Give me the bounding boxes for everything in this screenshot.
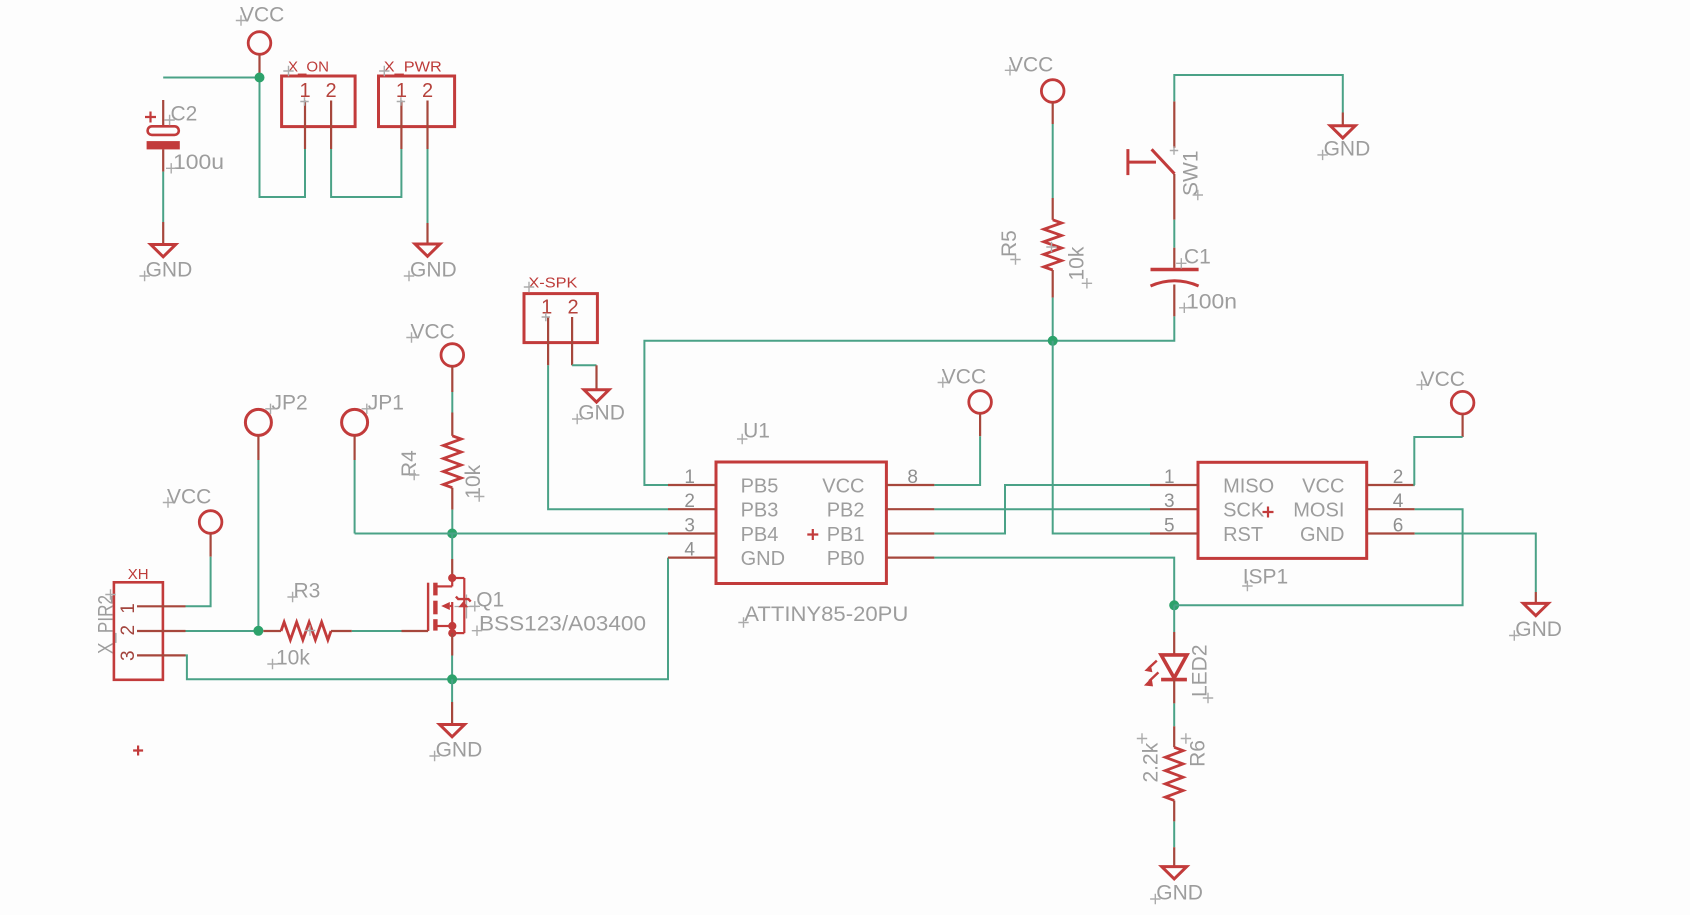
wire net VCC: C2 top / VCC flag / X_ON pin1 xyxy=(163,78,305,198)
wire net GND: R6 to ground xyxy=(1173,821,1175,866)
svg-text:3: 3 xyxy=(118,650,139,661)
svg-text:R5: R5 xyxy=(998,230,1021,257)
svg-text:GND: GND xyxy=(1156,882,1203,905)
wire net PB3: X-SPK pin1 down/over to U1 pin2 xyxy=(548,365,668,509)
ic ISP1 box xyxy=(1198,462,1367,558)
wire net PB4: R4 to junction xyxy=(451,510,453,534)
junction net PB4 (R4 / JP1 / Q1 drain / U1 PB4) xyxy=(447,529,457,539)
wire net MOSI: U1 PB0 to LED junction xyxy=(934,558,1174,606)
switch SW1 (pushbutton) xyxy=(1128,101,1178,219)
ground GND below Q1 xyxy=(429,725,482,762)
ground GND right of SW1 xyxy=(1317,126,1370,161)
svg-text:C2: C2 xyxy=(171,103,198,126)
junction at R3 / JP2 / XH pin2 xyxy=(253,626,263,636)
wire net MOSI: junction across/up to ISP1 pin4 xyxy=(1174,509,1462,605)
svg-text:X_ON: X_ON xyxy=(288,59,329,76)
label Q1 xyxy=(470,589,505,612)
label R4 (rotated) xyxy=(398,450,421,480)
wire net SCK: U1 PB2 to ISP1 SCK xyxy=(934,508,1150,510)
wire net GND: ISP1 pin6 to ground xyxy=(1415,534,1536,604)
label LED2 (rotated) xyxy=(1189,644,1214,703)
svg-text:GND: GND xyxy=(1324,137,1371,160)
label R5 (rotated) xyxy=(998,230,1021,265)
wire net VCC: flag to R5 xyxy=(1052,124,1054,198)
ISP1 pin 6 (GND) lead and number xyxy=(1367,516,1415,537)
label R6 (rotated) xyxy=(1181,733,1210,767)
label R3 xyxy=(287,580,320,603)
svg-text:2: 2 xyxy=(422,80,433,102)
svg-text:XH: XH xyxy=(128,566,149,583)
svg-text:GND: GND xyxy=(741,548,785,570)
resistor R4 xyxy=(443,413,461,510)
U1 pins 7/6/5 leads (PB2, PB1, PB0) xyxy=(886,509,934,557)
resistor R6 xyxy=(1165,726,1183,821)
svg-text:1: 1 xyxy=(684,467,695,488)
label C1 xyxy=(1176,246,1211,269)
svg-text:10k: 10k xyxy=(462,464,485,498)
svg-text:1: 1 xyxy=(118,603,139,614)
wire net PB4: JP1 down to row xyxy=(354,460,356,534)
wire net GND: X_PWR pin2 to ground xyxy=(427,149,429,244)
svg-text:X_PIR2: X_PIR2 xyxy=(95,595,118,654)
U1 pin 2 (PB3) lead and number xyxy=(668,491,716,512)
ground GND below X_PWR xyxy=(404,244,457,282)
connector X_ON xyxy=(282,59,356,150)
resistor R3 xyxy=(263,622,351,640)
wire net: JP2 down to R3 junction xyxy=(257,460,259,631)
wire net RST: R5 to junction xyxy=(1052,298,1054,341)
svg-text:6: 6 xyxy=(1393,516,1404,537)
svg-text:PB5: PB5 xyxy=(741,475,779,497)
power flag VCC at U1 pin8 xyxy=(938,366,992,437)
svg-text:SCK: SCK xyxy=(1223,500,1265,522)
U1 pin 3 (PB4) lead and number xyxy=(668,516,716,537)
svg-text:VCC: VCC xyxy=(240,4,284,27)
wire net GND: X-SPK pin2 to ground xyxy=(572,365,596,390)
wire net PB4: row from JP1 to U1 pin3 xyxy=(355,533,668,535)
label X_PIR2 (XH, rotated) xyxy=(95,589,118,654)
svg-text:GND: GND xyxy=(410,259,457,282)
svg-text:BSS123/A03400: BSS123/A03400 xyxy=(479,613,646,636)
svg-text:GND: GND xyxy=(1300,524,1344,546)
label U1 xyxy=(737,420,770,445)
wire net GND: C2 to ground xyxy=(162,172,164,245)
value label 10k (R4, rotated) xyxy=(462,464,485,501)
junction net MOSI at LED2 xyxy=(1169,600,1179,610)
svg-text:VCC: VCC xyxy=(822,475,864,497)
wire net GND rail: XH pin3 across to U1 GND pin xyxy=(186,558,669,680)
svg-text:GND: GND xyxy=(1515,618,1562,641)
value label 2.2k (R6, rotated) xyxy=(1137,733,1163,782)
svg-text:LED2: LED2 xyxy=(1189,644,1212,697)
U1 pin 4 (GND) lead and number xyxy=(668,540,716,561)
wire net: R3 to Q1 gate xyxy=(352,630,402,632)
wire net VCC: flag to R4 xyxy=(451,392,453,413)
svg-text:2: 2 xyxy=(684,491,695,512)
svg-text:3: 3 xyxy=(1164,491,1175,512)
capacitor C2 (electrolytic 100u) xyxy=(145,100,197,172)
wire net: XH pin2 to R3 junction xyxy=(186,630,259,632)
ic U1 box (ATTINY85-20PU) xyxy=(716,462,886,584)
ISP1 pin 3 (SCK) lead and number xyxy=(1150,491,1198,512)
wire net GND: rail junction down to ground xyxy=(451,679,453,724)
svg-text:VCC: VCC xyxy=(1302,475,1344,497)
svg-text:2: 2 xyxy=(326,80,337,102)
ISP1 pin 1 (MISO) lead and number xyxy=(1150,467,1198,488)
svg-text:R4: R4 xyxy=(398,450,421,477)
power flag VCC above R4 xyxy=(406,321,463,393)
svg-text:PB3: PB3 xyxy=(741,500,779,522)
wire net: LED2 cathode to R6 xyxy=(1173,703,1175,726)
svg-text:VCC: VCC xyxy=(167,486,211,509)
svg-text:SW1: SW1 xyxy=(1180,150,1203,196)
svg-text:RST: RST xyxy=(1223,524,1263,546)
svg-text:ATTINY85-20PU: ATTINY85-20PU xyxy=(744,603,908,626)
power flag VCC at XH pin1 xyxy=(163,486,222,557)
svg-text:VCC: VCC xyxy=(1421,368,1465,391)
ISP1 pin 4 (MOSI) lead and number xyxy=(1367,491,1415,512)
label SW1 (rotated) xyxy=(1180,150,1204,200)
wire net RST: SW1 bottom to C1 xyxy=(1173,220,1175,248)
connector XH (X_PIR2) xyxy=(114,566,186,680)
svg-text:VCC: VCC xyxy=(1009,53,1053,76)
svg-text:GND: GND xyxy=(436,739,483,762)
wire net GND: SW1 top to ground xyxy=(1174,75,1343,126)
svg-text:10k: 10k xyxy=(276,647,310,670)
wire net MISO: U1 PB1 to ISP1 MISO xyxy=(934,485,1150,534)
svg-text:2: 2 xyxy=(118,625,139,636)
wire net: X_ON pin2 to X_PWR pin1 xyxy=(331,149,401,197)
value label 10k (R5, rotated) xyxy=(1066,246,1093,288)
label ISP1 xyxy=(1242,566,1288,592)
svg-text:PB4: PB4 xyxy=(741,524,779,546)
transistor Q1 (N-MOSFET BSS123) xyxy=(402,559,479,656)
svg-text:VCC: VCC xyxy=(942,366,986,389)
svg-text:JP2: JP2 xyxy=(272,392,308,415)
svg-text:8: 8 xyxy=(907,467,918,488)
svg-text:Q1: Q1 xyxy=(476,589,504,612)
wire net GND: Q1 source to rail xyxy=(451,656,453,680)
svg-text:10k: 10k xyxy=(1066,246,1089,280)
svg-text:C1: C1 xyxy=(1184,246,1211,269)
wire net VCC: flag to ISP1 pin2 xyxy=(1414,437,1462,485)
svg-text:100n: 100n xyxy=(1186,291,1237,314)
capacitor C1 (100n) xyxy=(1151,248,1199,317)
ISP1 pin 5 (RST) lead and number xyxy=(1150,516,1198,537)
power flag VCC (top-left, feeds C2 and X_ON) xyxy=(236,4,285,78)
svg-text:1: 1 xyxy=(1164,467,1175,488)
wire net VCC: U1 pin8 to flag xyxy=(934,436,980,485)
svg-text:4: 4 xyxy=(684,540,695,561)
junction net RST (R5 / PB5 row / ISP RST) xyxy=(1048,336,1058,346)
connector X_PWR xyxy=(379,59,455,150)
svg-text:X-SPK: X-SPK xyxy=(528,275,577,292)
test point JP2 xyxy=(245,392,307,461)
svg-text:1: 1 xyxy=(541,297,552,319)
U1 pin 8 (VCC) lead and number xyxy=(886,467,934,488)
wire net PB4: junction down to Q1 drain xyxy=(451,534,453,560)
wire net VCC: XH pin1 to VCC flag xyxy=(186,557,211,607)
svg-text:5: 5 xyxy=(1164,516,1175,537)
U1 pin 1 (PB5) lead and number xyxy=(668,467,716,488)
stray origin cross (red, bottom-left) xyxy=(133,746,143,756)
svg-text:2: 2 xyxy=(1393,467,1404,488)
value label BSS123/A03400 (Q1) xyxy=(472,613,646,636)
svg-text:R3: R3 xyxy=(294,580,321,603)
svg-text:JP1: JP1 xyxy=(368,392,404,415)
svg-text:4: 4 xyxy=(1393,491,1404,512)
power flag VCC at ISP1 pin2 xyxy=(1416,368,1473,437)
ISP1 pin 2 (VCC) lead and number xyxy=(1367,467,1415,488)
wire net MOSI: junction down to LED2 xyxy=(1173,605,1175,632)
ground GND right of ISP1 xyxy=(1509,603,1562,641)
svg-text:GND: GND xyxy=(578,402,625,425)
svg-text:PB0: PB0 xyxy=(827,548,865,570)
wire net PB5: U1 pin1 up and across to SW1/C1/R5 xyxy=(644,316,1174,485)
svg-text:X_PWR: X_PWR xyxy=(384,59,442,76)
svg-text:2.2k: 2.2k xyxy=(1140,742,1163,782)
power flag VCC above R5 xyxy=(1005,53,1064,124)
junction GND rail at Q1 source xyxy=(447,674,457,684)
junction net VCC at VCC flag xyxy=(255,73,265,83)
connector X-SPK xyxy=(524,275,598,366)
wire net RST: junction down and over to ISP1 pin5 xyxy=(1053,341,1150,534)
diode LED2 xyxy=(1144,632,1187,703)
ground GND below C2 xyxy=(139,245,192,282)
svg-text:VCC: VCC xyxy=(411,321,455,344)
svg-text:R6: R6 xyxy=(1187,740,1210,767)
svg-text:MOSI: MOSI xyxy=(1293,500,1344,522)
value label 100u (C2) xyxy=(166,151,224,174)
ground GND below X-SPK xyxy=(572,390,625,425)
resistor R5 xyxy=(1044,198,1062,298)
svg-text:2: 2 xyxy=(567,297,578,319)
test point JP1 xyxy=(342,392,404,461)
value label ATTINY85-20PU (U1) xyxy=(738,603,908,628)
svg-text:PB1: PB1 xyxy=(827,524,865,546)
value label 10k (R3) xyxy=(267,647,310,670)
svg-text:GND: GND xyxy=(146,259,193,282)
svg-text:100u: 100u xyxy=(173,151,224,174)
svg-text:PB2: PB2 xyxy=(827,500,865,522)
ground GND below R6 xyxy=(1150,867,1203,905)
value label 100n (C1) xyxy=(1179,291,1237,314)
svg-text:3: 3 xyxy=(684,516,695,537)
svg-text:MISO: MISO xyxy=(1223,475,1274,497)
svg-text:ISP1: ISP1 xyxy=(1243,566,1289,589)
